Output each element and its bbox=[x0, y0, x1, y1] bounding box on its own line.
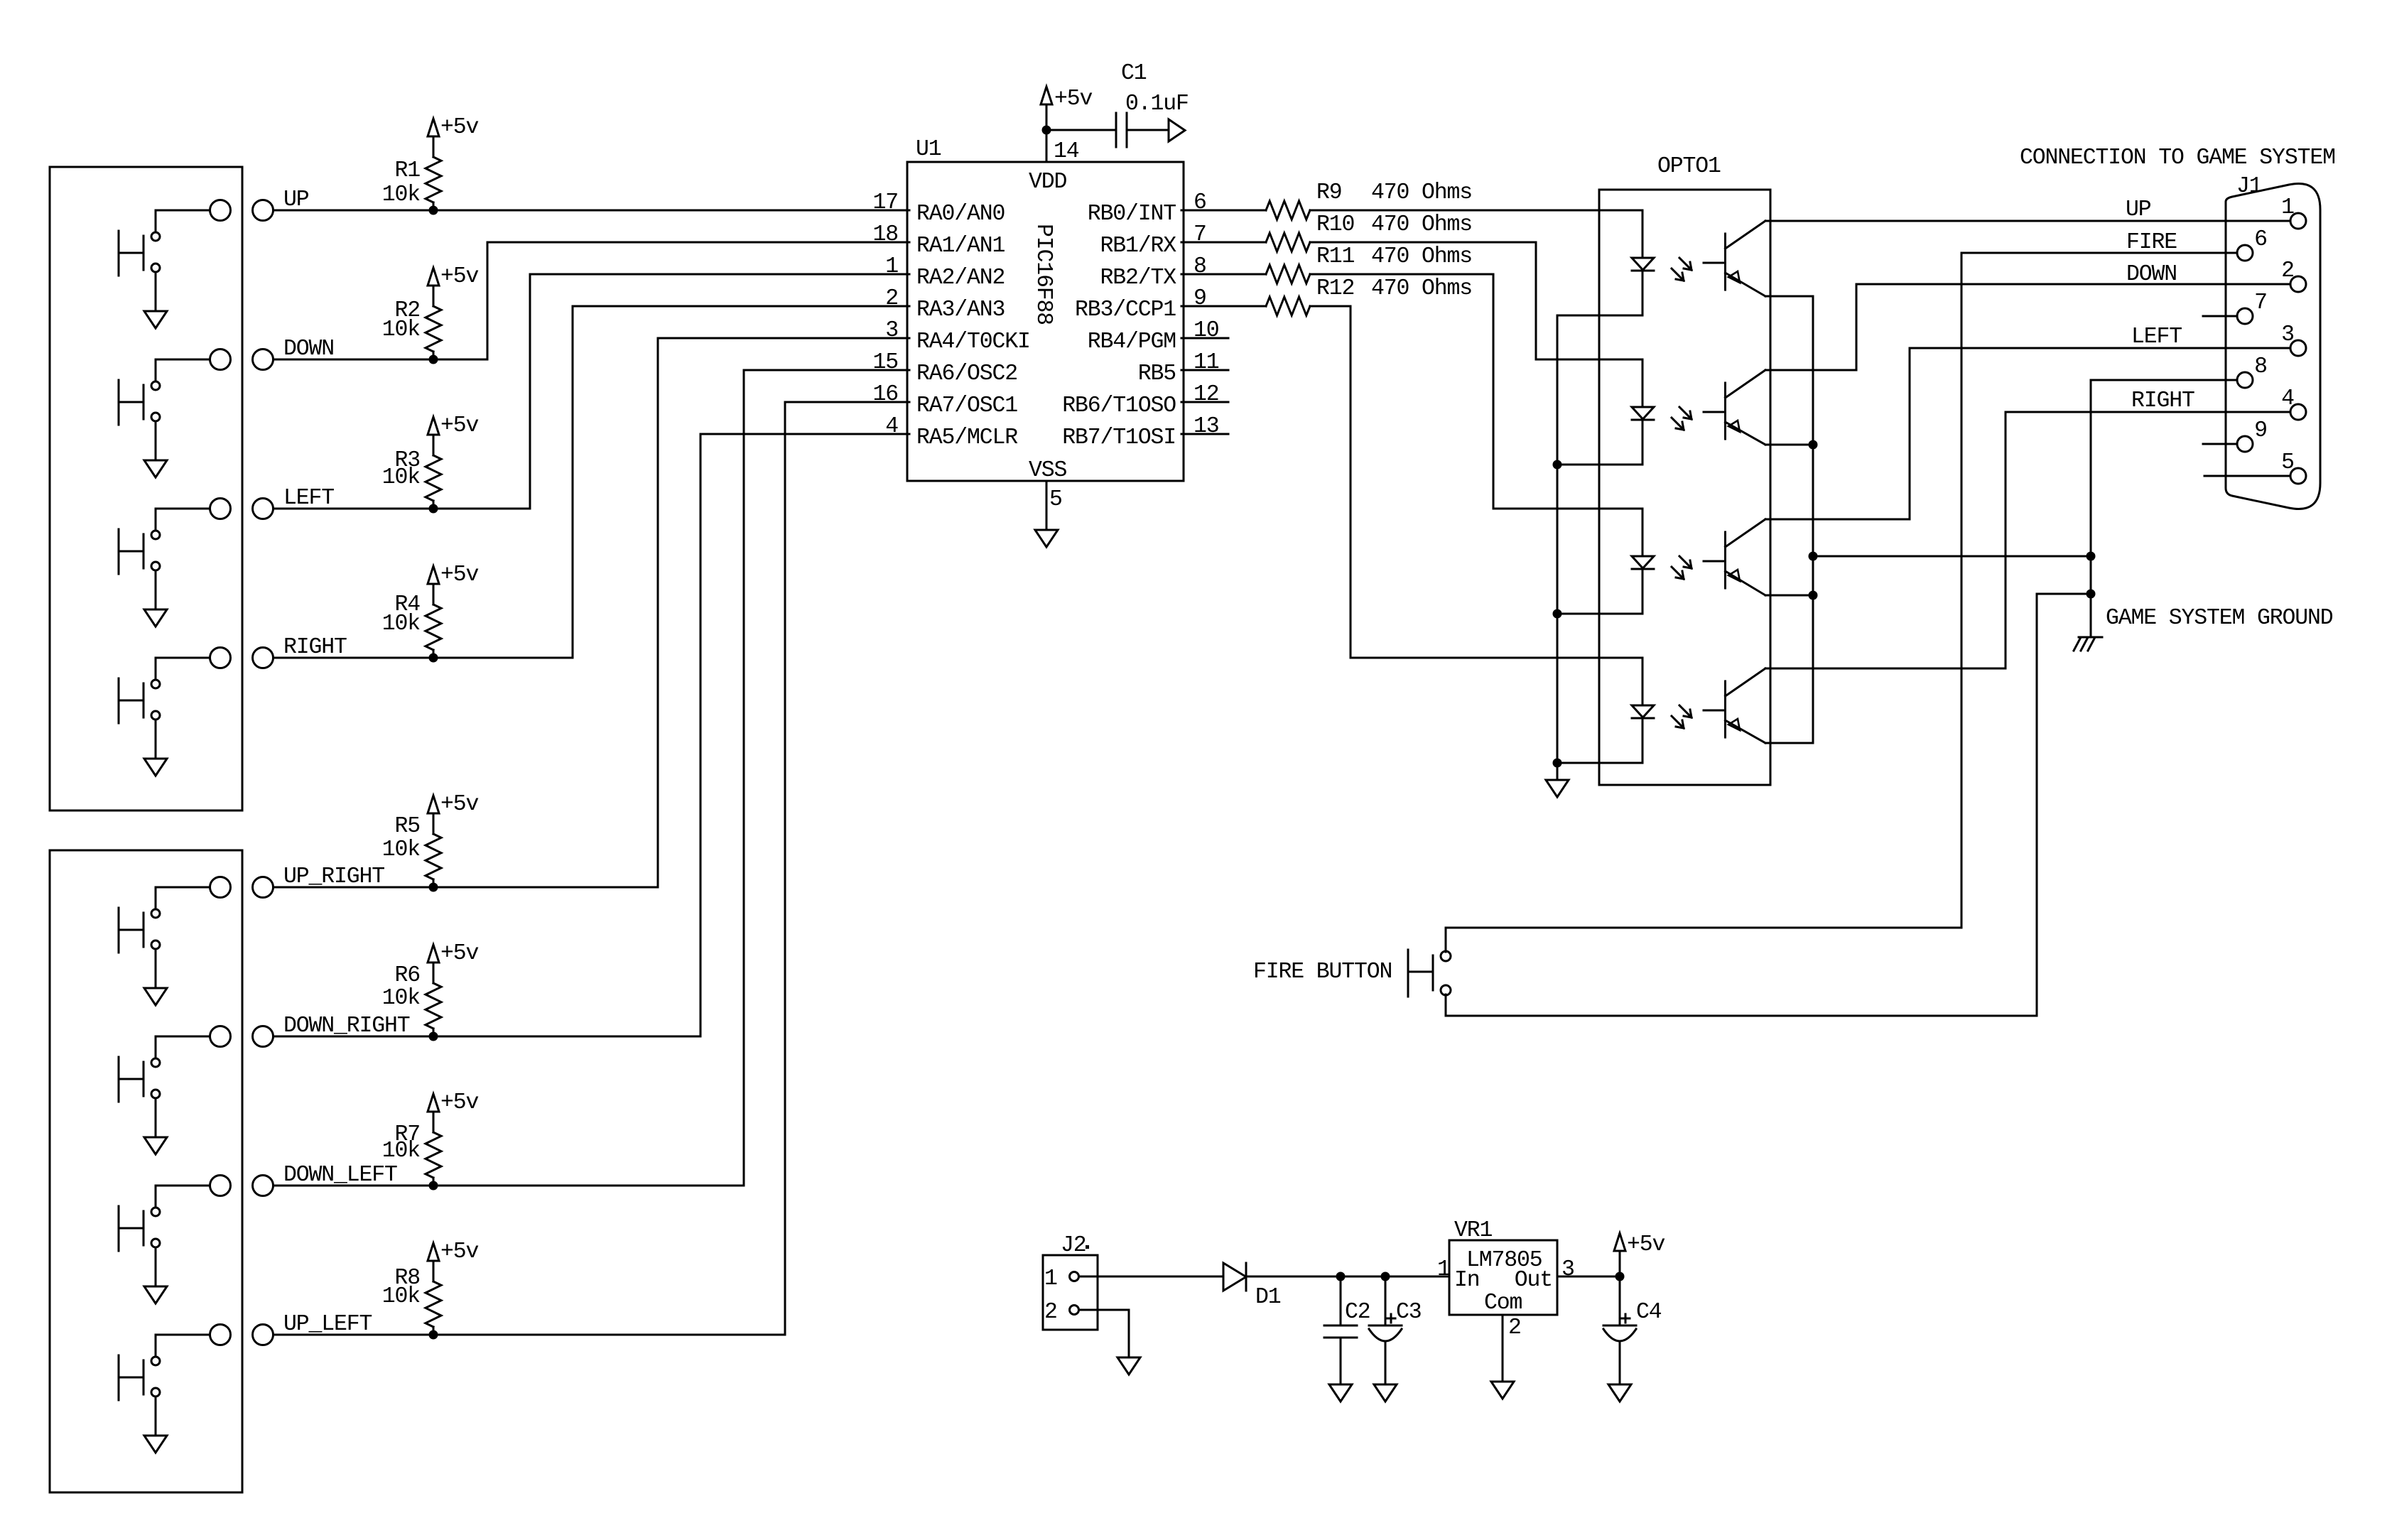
pushbutton switch S1 (UP) bbox=[119, 210, 210, 311]
svg-text:R6: R6 bbox=[394, 963, 420, 988]
pushbutton switch S8 (UP_LEFT) bbox=[119, 1335, 210, 1436]
wire Q3 collector to J1 pin 3 (LEFT) bbox=[1765, 348, 2290, 519]
value LM7805 (VR1) bbox=[1466, 1248, 1542, 1273]
label VDD bbox=[1029, 170, 1067, 195]
+5v power symbol at R2 bbox=[428, 268, 439, 288]
svg-text:16: 16 bbox=[872, 382, 898, 407]
ground under S1 bbox=[144, 311, 167, 328]
ground at C2 bbox=[1329, 1384, 1352, 1401]
svg-text:R1: R1 bbox=[394, 158, 420, 183]
svg-text:C2: C2 bbox=[1345, 1300, 1370, 1325]
connector pin circle DOWN_LEFT (inside box) bbox=[210, 1176, 231, 1196]
svg-text:2: 2 bbox=[1044, 1300, 1057, 1325]
pin number 13 bbox=[1193, 414, 1219, 439]
J1 pin 7 circle bbox=[2237, 308, 2253, 324]
svg-text:470 Ohms: 470 Ohms bbox=[1371, 180, 1472, 205]
+5v power symbol at R1 bbox=[428, 119, 439, 139]
junction dot fire-return/ground bbox=[2086, 590, 2096, 599]
label R11 bbox=[1316, 244, 1355, 269]
svg-text:5: 5 bbox=[2281, 450, 2294, 475]
value 10k (R4) bbox=[382, 612, 421, 636]
svg-text:6: 6 bbox=[1193, 190, 1206, 215]
label R4 bbox=[394, 592, 420, 617]
svg-text:R12: R12 bbox=[1316, 276, 1354, 301]
J2 pin number 2 bbox=[1044, 1300, 1057, 1325]
svg-text:RA1/AN1: RA1/AN1 bbox=[916, 234, 1005, 259]
pin 9 name RB3/CCP1 bbox=[1075, 298, 1176, 322]
capacitor C4 (polarized) bbox=[1603, 1276, 1636, 1384]
label R7 bbox=[394, 1122, 420, 1147]
wire R9 to LED1 anode bbox=[1310, 210, 1642, 212]
svg-text:10k: 10k bbox=[382, 318, 421, 342]
J1 pin number 3 bbox=[2281, 322, 2294, 347]
label C2 bbox=[1345, 1300, 1370, 1325]
svg-text:10k: 10k bbox=[382, 465, 421, 490]
value 10k (R2) bbox=[382, 318, 421, 342]
J1 pin number 7 bbox=[2254, 291, 2267, 315]
net label LEFT (J1) bbox=[2131, 325, 2182, 349]
net label UP_RIGHT bbox=[283, 864, 384, 889]
phototransistor Q-opto2 bbox=[1704, 370, 1765, 445]
J1 pin 5 circle bbox=[2290, 468, 2306, 484]
ground at J2 pin 2 bbox=[1117, 1357, 1140, 1374]
wire Q1 collector to J1 pin 1 (UP) bbox=[1765, 220, 2290, 222]
svg-text:+5v: +5v bbox=[440, 115, 479, 140]
svg-text:3: 3 bbox=[2281, 322, 2294, 347]
pin 2 name RA3/AN3 bbox=[916, 298, 1005, 322]
svg-text:U1: U1 bbox=[916, 137, 941, 162]
junction dot LED4 cathode bbox=[1553, 759, 1562, 768]
svg-text:GAME SYSTEM GROUND: GAME SYSTEM GROUND bbox=[2106, 606, 2333, 631]
+5v power symbol at R4 bbox=[428, 566, 439, 587]
pin 18 name RA1/AN1 bbox=[916, 234, 1005, 259]
wire VSS pin 5 bbox=[1046, 481, 1048, 530]
+5v power symbol at VDD bbox=[1041, 87, 1052, 104]
svg-text:RIGHT: RIGHT bbox=[283, 635, 347, 660]
ground under OPTO1 LEDs bbox=[1546, 780, 1569, 797]
svg-text:D1: D1 bbox=[1255, 1285, 1281, 1310]
LED D-opto4 (OPTO1 channel 4) bbox=[1632, 658, 1654, 763]
pin number 12 bbox=[1193, 382, 1219, 407]
node circle DOWN_LEFT (wire end) bbox=[253, 1176, 274, 1196]
pin 13 stub wire bbox=[1181, 433, 1228, 435]
wire DOWN_RIGHT net to pin 4 bbox=[274, 434, 910, 1036]
svg-text:RA7/OSC1: RA7/OSC1 bbox=[916, 394, 1017, 418]
svg-text:1: 1 bbox=[885, 254, 898, 279]
svg-text:FIRE BUTTON: FIRE BUTTON bbox=[1253, 960, 1392, 985]
connector pin circle DOWN_RIGHT (inside box) bbox=[210, 1026, 231, 1047]
J1 pin 4 circle bbox=[2290, 404, 2306, 420]
wire FIRE button bottom to ground bbox=[1446, 594, 2091, 1016]
node circle RIGHT (wire end) bbox=[253, 648, 274, 668]
J1 pin number 8 bbox=[2254, 354, 2267, 379]
connector box P1 (joystick switches 1) bbox=[50, 167, 242, 810]
svg-text:RB2/TX: RB2/TX bbox=[1100, 266, 1176, 291]
wire UP net to pin 17 bbox=[274, 210, 910, 212]
label VR1 bbox=[1454, 1218, 1493, 1243]
svg-text:17: 17 bbox=[872, 190, 898, 215]
svg-text:DOWN_RIGHT: DOWN_RIGHT bbox=[283, 1014, 410, 1039]
pushbutton switch S6 (DOWN_RIGHT) bbox=[119, 1036, 210, 1137]
label R8 bbox=[394, 1266, 420, 1291]
J1 pin number 4 bbox=[2281, 386, 2294, 411]
svg-text:+5v: +5v bbox=[440, 792, 479, 817]
wire Q4 collector to J1 pin 4 (RIGHT) bbox=[1765, 412, 2290, 668]
svg-text:10: 10 bbox=[1193, 318, 1219, 343]
pin number 18 bbox=[872, 222, 898, 247]
connector J2 box bbox=[1043, 1255, 1098, 1330]
svg-text:+5v: +5v bbox=[440, 1240, 479, 1264]
junction dot R4/net bbox=[429, 654, 438, 663]
svg-text:3: 3 bbox=[885, 318, 898, 343]
+5v label at R6 bbox=[440, 941, 479, 966]
svg-text:LEFT: LEFT bbox=[283, 486, 334, 511]
svg-text:+5v: +5v bbox=[1627, 1232, 1665, 1257]
svg-text:DOWN: DOWN bbox=[283, 337, 334, 362]
wire LED4 cathode bbox=[1557, 762, 1642, 764]
J1 pin 6 circle bbox=[2237, 245, 2253, 261]
svg-text:CONNECTION TO GAME SYSTEM: CONNECTION TO GAME SYSTEM bbox=[2020, 146, 2335, 170]
svg-text:R9: R9 bbox=[1316, 180, 1342, 205]
pin 10 name RB4/PGM bbox=[1088, 330, 1176, 354]
value 10k (R3) bbox=[382, 465, 421, 490]
net label UP (J1) bbox=[2126, 197, 2151, 222]
label VSS bbox=[1029, 458, 1067, 483]
wire UP_LEFT net to pin 16 bbox=[274, 402, 910, 1335]
net label UP bbox=[283, 188, 309, 212]
J1 pin number 1 bbox=[2281, 195, 2294, 220]
svg-text:7: 7 bbox=[2254, 291, 2267, 315]
pin number 9 bbox=[1193, 286, 1206, 311]
svg-text:UP: UP bbox=[2126, 197, 2151, 222]
wire J2 pin 2 to ground bbox=[1079, 1310, 1130, 1357]
pushbutton switch S7 (DOWN_LEFT) bbox=[119, 1186, 210, 1286]
node circle UP_LEFT (wire end) bbox=[253, 1325, 274, 1345]
wire UP_RIGHT net to pin 3 bbox=[274, 338, 910, 887]
J2 pin 1 circle bbox=[1070, 1272, 1079, 1281]
svg-text:VSS: VSS bbox=[1029, 458, 1067, 483]
label R3 bbox=[394, 448, 420, 473]
LED D-opto1 (OPTO1 channel 1) bbox=[1632, 210, 1654, 315]
wire VDD pin 14 bbox=[1046, 104, 1048, 162]
wire R12 to LED4 anode bbox=[1310, 306, 1642, 658]
resistor R2 bbox=[426, 286, 441, 359]
svg-text:470 Ohms: 470 Ohms bbox=[1371, 244, 1472, 269]
junction dot VDD node bbox=[1042, 126, 1051, 135]
junction dot Q2 emitter bbox=[1809, 440, 1818, 450]
J1 pin 1 circle bbox=[2290, 213, 2306, 229]
junction dot R8/net bbox=[429, 1330, 438, 1340]
light arrows channel 4 bbox=[1672, 705, 1692, 728]
ground under S8 bbox=[144, 1436, 167, 1453]
wire Q1 emitter bbox=[1765, 295, 1813, 298]
svg-text:3: 3 bbox=[1561, 1257, 1574, 1282]
label C3 bbox=[1396, 1300, 1422, 1325]
label R12 bbox=[1316, 276, 1354, 301]
J1 pin number 2 bbox=[2281, 259, 2294, 283]
connector pin circle UP_RIGHT (inside box) bbox=[210, 877, 231, 898]
wire FIRE net pin 6 bbox=[1961, 253, 2237, 928]
value 10k (R1) bbox=[382, 183, 421, 207]
light arrows channel 1 bbox=[1672, 258, 1692, 281]
junction dot C2 node bbox=[1336, 1272, 1346, 1281]
wire Q3 emitter bbox=[1765, 595, 1813, 597]
wire Q4 emitter bbox=[1765, 742, 1813, 744]
svg-text:6: 6 bbox=[2254, 227, 2267, 252]
svg-text:14: 14 bbox=[1054, 139, 1079, 164]
junction dot Q3 emitter bbox=[1809, 591, 1818, 600]
svg-text:1: 1 bbox=[1044, 1267, 1057, 1291]
VR1 pin number 2 bbox=[1508, 1316, 1521, 1340]
svg-text:+5v: +5v bbox=[1054, 87, 1093, 112]
junction dot R5/net bbox=[429, 883, 438, 892]
svg-text:RIGHT: RIGHT bbox=[2131, 389, 2194, 413]
pin 4 name RA5/MCLR bbox=[916, 425, 1018, 450]
net label RIGHT bbox=[283, 635, 347, 660]
resistor R7 bbox=[426, 1112, 441, 1186]
wire DOWN_LEFT net to pin 15 bbox=[274, 370, 910, 1186]
pin number 1 bbox=[885, 254, 898, 279]
svg-text:+5v: +5v bbox=[440, 264, 479, 289]
wire VDD to C1 bbox=[1046, 129, 1114, 131]
chassis ground GAME SYSTEM GROUND bbox=[2074, 637, 2102, 651]
wire pin to R9 bbox=[1181, 210, 1266, 212]
pushbutton switch S3 (LEFT) bbox=[119, 509, 210, 609]
resistor R10 bbox=[1266, 233, 1310, 251]
value 10k (R6) bbox=[382, 986, 421, 1011]
net label DOWN bbox=[283, 337, 334, 362]
svg-text:DOWN_LEFT: DOWN_LEFT bbox=[283, 1163, 397, 1188]
svg-text:11: 11 bbox=[1193, 350, 1219, 375]
svg-text:PIC16F88: PIC16F88 bbox=[1031, 224, 1056, 325]
ground at VSS bbox=[1035, 530, 1058, 547]
J1 pin 9 circle bbox=[2237, 436, 2253, 452]
wire VR1 Com to ground bbox=[1502, 1315, 1504, 1382]
capacitor C2 bbox=[1324, 1276, 1357, 1384]
label OPTO1 bbox=[1657, 154, 1721, 179]
pin 6 name RB0/INT bbox=[1088, 202, 1176, 227]
wire LED cathode rail bbox=[1557, 316, 1559, 780]
net label UP_LEFT bbox=[283, 1312, 372, 1337]
wire DOWN net to pin 18 bbox=[274, 242, 910, 359]
wire J1 pin 7 stub bbox=[2203, 315, 2237, 318]
J1 pin number 6 bbox=[2254, 227, 2267, 252]
svg-text:470 Ohms: 470 Ohms bbox=[1371, 276, 1472, 301]
resistor R9 bbox=[1266, 201, 1310, 219]
net label DOWN (J1) bbox=[2126, 262, 2177, 287]
junction dot rail/ground wire bbox=[1809, 552, 1818, 561]
wire D1 to VR1 In bbox=[1246, 1276, 1449, 1278]
wire J1 pin 5 stub bbox=[2204, 475, 2290, 477]
wire emitter rail bbox=[1812, 296, 1814, 743]
node circle DOWN_RIGHT (wire end) bbox=[253, 1026, 274, 1047]
pin number 7 bbox=[1193, 222, 1206, 247]
svg-text:10k: 10k bbox=[382, 183, 421, 207]
+5v power symbol at R8 bbox=[428, 1243, 439, 1264]
value 10k (R5) bbox=[382, 837, 421, 862]
node circle DOWN (wire end) bbox=[253, 349, 274, 370]
resistor R12 bbox=[1266, 297, 1310, 315]
junction dot ground vertical top bbox=[2086, 552, 2096, 561]
svg-text:2: 2 bbox=[1508, 1316, 1521, 1340]
value 10k (R7) bbox=[382, 1139, 421, 1164]
net label DOWN_RIGHT bbox=[283, 1014, 410, 1039]
net label FIRE (J1) bbox=[2126, 230, 2177, 255]
svg-text:4: 4 bbox=[885, 414, 898, 439]
+5v label at R1 bbox=[440, 115, 479, 140]
svg-text:In: In bbox=[1454, 1268, 1480, 1293]
resistor R6 bbox=[426, 962, 441, 1036]
junction dot R2/net bbox=[429, 355, 438, 364]
+5v label at R8 bbox=[440, 1240, 479, 1264]
svg-text:1: 1 bbox=[2281, 195, 2294, 220]
svg-text:RB0/INT: RB0/INT bbox=[1088, 202, 1176, 227]
svg-text:FIRE: FIRE bbox=[2126, 230, 2177, 255]
svg-text:R10: R10 bbox=[1316, 212, 1354, 237]
connector pin circle UP_LEFT (inside box) bbox=[210, 1325, 231, 1345]
wire LED3 cathode bbox=[1557, 613, 1642, 615]
svg-text:J2: J2 bbox=[1061, 1233, 1086, 1258]
label R1 bbox=[394, 158, 420, 183]
svg-text:18: 18 bbox=[872, 222, 898, 247]
J2 pin 2 circle bbox=[1070, 1306, 1079, 1315]
svg-text:RA0/AN0: RA0/AN0 bbox=[916, 202, 1005, 227]
J1 pin number 5 bbox=[2281, 450, 2294, 475]
value 470 Ohms (R10) bbox=[1371, 212, 1472, 237]
svg-text:Out: Out bbox=[1515, 1268, 1552, 1293]
pin number 2 bbox=[885, 286, 898, 311]
junction dot R3/net bbox=[429, 504, 438, 514]
svg-text:10k: 10k bbox=[382, 1139, 421, 1164]
optocoupler OPTO1 box bbox=[1599, 190, 1770, 785]
label PIC16F88 (rotated) bbox=[1031, 224, 1056, 325]
pin number 5 bbox=[1049, 487, 1062, 512]
+5v label at VR1 out bbox=[1627, 1232, 1665, 1257]
light arrows channel 2 bbox=[1672, 407, 1692, 430]
wire pin to R11 bbox=[1181, 273, 1266, 276]
label FIRE BUTTON bbox=[1253, 960, 1392, 985]
ground under S2 bbox=[144, 460, 167, 477]
+5v label at R5 bbox=[440, 792, 479, 817]
value 10k (R8) bbox=[382, 1284, 421, 1309]
+5v label at R4 bbox=[440, 563, 479, 587]
wire FIRE button top contact bbox=[1446, 928, 1961, 952]
pin number 15 bbox=[872, 350, 898, 375]
svg-text:RB3/CCP1: RB3/CCP1 bbox=[1075, 298, 1176, 322]
label GAME SYSTEM GROUND bbox=[2106, 606, 2333, 631]
capacitor C3 (polarized) bbox=[1369, 1276, 1402, 1384]
connector pin circle LEFT (inside box) bbox=[210, 499, 231, 519]
value 470 Ohms (R11) bbox=[1371, 244, 1472, 269]
ground under S6 bbox=[144, 1137, 167, 1154]
pin 12 name RB6/T1OSO bbox=[1062, 394, 1176, 418]
svg-text:RB6/T1OSO: RB6/T1OSO bbox=[1062, 394, 1176, 418]
LED D-opto2 (OPTO1 channel 2) bbox=[1632, 359, 1654, 465]
J1 pin 8 circle bbox=[2237, 372, 2253, 388]
wire J1 pin 9 stub bbox=[2203, 443, 2237, 445]
svg-text:+5v: +5v bbox=[440, 1090, 479, 1115]
J1 pin number 9 bbox=[2254, 418, 2267, 443]
value 0.1uF (C1) bbox=[1125, 92, 1189, 116]
label D1 bbox=[1255, 1285, 1281, 1310]
VR1 pin name Com bbox=[1484, 1291, 1522, 1316]
pin 16 name RA7/OSC1 bbox=[916, 394, 1017, 418]
pin number 11 bbox=[1193, 350, 1219, 375]
svg-text:R5: R5 bbox=[394, 814, 420, 839]
J1 pin 2 circle bbox=[2290, 276, 2306, 292]
wire LEFT net to pin 1 bbox=[274, 274, 910, 509]
svg-text:10k: 10k bbox=[382, 1284, 421, 1309]
ground under S5 bbox=[144, 988, 167, 1005]
net label DOWN_LEFT bbox=[283, 1163, 397, 1188]
svg-text:RA4/T0CKI: RA4/T0CKI bbox=[916, 330, 1030, 354]
svg-text:RB7/T1OSI: RB7/T1OSI bbox=[1062, 425, 1176, 450]
svg-text:RB1/RX: RB1/RX bbox=[1100, 234, 1176, 259]
+5v label at R7 bbox=[440, 1090, 479, 1115]
VR1 pin name Out bbox=[1515, 1268, 1552, 1293]
pin number 16 bbox=[872, 382, 898, 407]
resistor R4 bbox=[426, 584, 441, 658]
svg-text:5: 5 bbox=[1049, 487, 1062, 512]
pin number 6 bbox=[1193, 190, 1206, 215]
svg-text:RB5: RB5 bbox=[1138, 362, 1176, 386]
pin number 17 bbox=[872, 190, 898, 215]
wire VR1 Out to +5v bbox=[1557, 1251, 1620, 1276]
VR1 pin number 3 bbox=[1561, 1257, 1574, 1282]
svg-text:VR1: VR1 bbox=[1454, 1218, 1493, 1243]
label J1 bbox=[2236, 174, 2262, 199]
+5v power symbol at R3 bbox=[428, 417, 439, 438]
pin 10 stub wire bbox=[1181, 337, 1228, 340]
wire LED2 cathode bbox=[1557, 464, 1642, 466]
pin 13 name RB7/T1OSI bbox=[1062, 425, 1176, 450]
svg-text:9: 9 bbox=[2254, 418, 2267, 443]
svg-text:RB4/PGM: RB4/PGM bbox=[1088, 330, 1176, 354]
voltage regulator VR1 box bbox=[1449, 1240, 1557, 1315]
ground at C3 bbox=[1374, 1384, 1397, 1401]
+5v label at VDD bbox=[1054, 87, 1093, 112]
pin 11 name RB5 bbox=[1138, 362, 1176, 386]
svg-text:10k: 10k bbox=[382, 612, 421, 636]
wire C1 to arrow bbox=[1129, 129, 1169, 131]
svg-text:9: 9 bbox=[1193, 286, 1206, 311]
net label RIGHT (J1) bbox=[2131, 389, 2194, 413]
pin number 3 bbox=[885, 318, 898, 343]
connector pin circle DOWN (inside box) bbox=[210, 349, 231, 370]
net label LEFT bbox=[283, 486, 334, 511]
pin 17 name RA0/AN0 bbox=[916, 202, 1005, 227]
resistor R3 bbox=[426, 435, 441, 509]
resistor R1 bbox=[426, 136, 441, 210]
connector box P2 (joystick switches 2) bbox=[50, 850, 242, 1492]
pin 11 stub wire bbox=[1181, 369, 1228, 372]
label C4 bbox=[1636, 1300, 1662, 1325]
pin 3 name RA4/T0CKI bbox=[916, 330, 1030, 354]
ground under S3 bbox=[144, 609, 167, 627]
svg-text:RA6/OSC2: RA6/OSC2 bbox=[916, 362, 1017, 386]
svg-text:RA5/MCLR: RA5/MCLR bbox=[916, 425, 1018, 450]
ground at VR1 Com bbox=[1491, 1382, 1514, 1399]
svg-text:C1: C1 bbox=[1121, 61, 1147, 86]
resistor R5 bbox=[426, 813, 441, 887]
ground at C4 bbox=[1608, 1384, 1631, 1401]
label R6 bbox=[394, 963, 420, 988]
svg-text:RA2/AN2: RA2/AN2 bbox=[916, 266, 1005, 291]
svg-text:4: 4 bbox=[2281, 386, 2294, 411]
node circle LEFT (wire end) bbox=[253, 499, 274, 519]
pin number 4 bbox=[885, 414, 898, 439]
junction dot R1/net bbox=[429, 206, 438, 215]
